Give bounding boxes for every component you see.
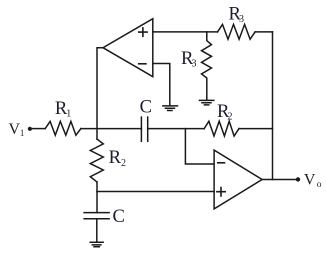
resistor R2 vertical — [90, 139, 103, 182]
wire U2 output to Vo — [262, 179, 296, 181]
svg-text:R: R — [109, 147, 122, 168]
resistor R1 — [45, 121, 81, 135]
op-amp U1 (pointing left) — [103, 19, 153, 77]
wire V1 to R1 — [32, 128, 45, 130]
svg-text:3: 3 — [239, 14, 244, 25]
resistor R2 horizontal — [204, 121, 239, 136]
resistor R3 horizontal — [218, 24, 256, 39]
svg-text:V: V — [304, 172, 316, 189]
wire bottom capacitor to ground — [96, 219, 98, 242]
svg-text:2: 2 — [121, 158, 126, 169]
capacitor C (bottom) plates — [84, 212, 109, 214]
svg-text:C: C — [140, 97, 152, 118]
wire right rail (down to U2 output) — [272, 32, 274, 180]
svg-text:1: 1 — [20, 128, 25, 138]
wire R3 to right rail corner — [255, 31, 272, 33]
svg-text:2: 2 — [228, 111, 233, 122]
wire node B to U2 noninverting input — [97, 191, 214, 193]
svg-text:o: o — [317, 180, 322, 190]
wire C to node A (U2 inverting branch) and R2 — [148, 128, 205, 130]
resistor R3 vertical — [202, 32, 212, 100]
svg-text:1: 1 — [66, 108, 71, 119]
svg-text:3: 3 — [192, 59, 197, 70]
node V1 terminal dot — [28, 127, 32, 131]
ground (bottom capacitor) — [90, 242, 103, 247]
capacitor C (series) plates — [140, 117, 142, 141]
wire U1 inverting input — [153, 64, 170, 106]
wire U1 output down to node A — [97, 48, 103, 139]
wire R1 to capacitor C — [81, 128, 141, 130]
node Vo terminal dot — [296, 177, 300, 181]
wire R2 to right rail — [239, 128, 273, 130]
ground (R3 vertical) — [199, 100, 213, 105]
wire U1 noninverting input to top rail — [153, 31, 218, 33]
wire node B down to bottom capacitor — [96, 182, 98, 213]
op-amp U2 (pointing right) — [214, 150, 262, 209]
wire node A branch to U2 inverting input — [185, 129, 214, 164]
svg-text:V: V — [9, 121, 21, 138]
ground (U1 inverting input) — [163, 106, 178, 111]
svg-text:C: C — [113, 206, 125, 227]
